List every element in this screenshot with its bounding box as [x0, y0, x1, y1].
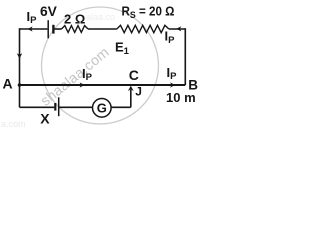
junction dot at A — [18, 83, 22, 87]
wire: jockey riser vertical — [130, 90, 132, 108]
wire: battery to resistor 2ohm — [55, 28, 62, 30]
battery X long plate — [58, 97, 60, 116]
battery 6V long plate — [47, 20, 49, 38]
battery X short plate — [54, 103, 56, 111]
watermark ring — [42, 7, 159, 124]
svg-text:C: C — [129, 67, 139, 83]
potentiometer wire A-B — [20, 84, 186, 86]
svg-text:alaa.co: alaa.co — [86, 12, 115, 22]
battery 6V short plate — [52, 25, 54, 34]
wire: left vertical — [19, 28, 21, 107]
wire: galvanometer to jockey riser — [111, 106, 131, 108]
wire: between resistors — [88, 28, 117, 30]
current arrow down on left wire — [17, 53, 22, 59]
current arrow Ip on wire right of C — [170, 82, 175, 87]
wire: top side (left segment to battery) — [20, 28, 48, 30]
resistor Rs zigzag — [117, 25, 169, 32]
svg-text:X: X — [40, 110, 50, 126]
galvanometer G circle — [93, 99, 112, 118]
wire: Rs to top-right corner — [169, 28, 185, 30]
jockey arrow up at C — [128, 86, 134, 91]
svg-text:A: A — [3, 76, 13, 92]
current arrow Ip top-left — [28, 26, 33, 31]
svg-text:2 Ω: 2 Ω — [64, 12, 85, 27]
svg-text:J: J — [135, 85, 142, 99]
current arrow Ip on wire left of C — [80, 82, 85, 87]
wire: battery X to galvanometer — [60, 106, 93, 108]
resistor 2ohm zigzag — [62, 26, 89, 33]
current arrow Ip top-right — [176, 26, 181, 31]
svg-text:10 m: 10 m — [166, 90, 196, 105]
wire: bottom from left corner to battery X — [20, 106, 55, 108]
svg-text:G: G — [97, 100, 107, 115]
wire: right vertical — [184, 28, 186, 85]
svg-text:6V: 6V — [40, 4, 58, 19]
svg-text:a.com: a.com — [1, 119, 26, 129]
